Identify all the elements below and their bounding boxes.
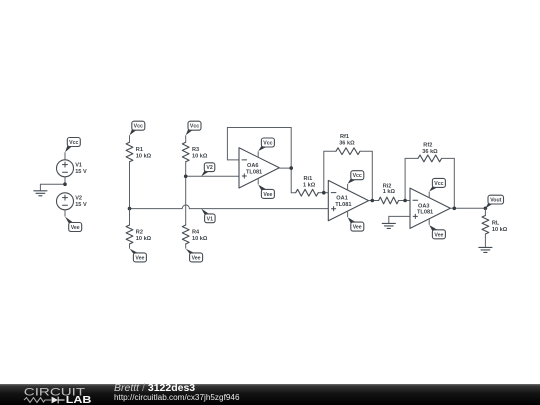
- wire: Vout node to RL: [484, 208, 486, 215]
- svg-text:15 V: 15 V: [75, 169, 87, 175]
- node: OA1 - input junction: [322, 191, 326, 195]
- svg-text:LAB: LAB: [66, 395, 92, 405]
- wire: OA1 feedback left leg: [324, 151, 336, 193]
- Vee flag (power column): [65, 217, 73, 224]
- node: R1/R2 midpoint junction: [128, 207, 132, 211]
- wire: R2 to Vee flag lead: [129, 244, 131, 249]
- wire: V1 to supply midpoint: [64, 177, 66, 184]
- svg-text:Vcc: Vcc: [263, 141, 272, 147]
- Vee flag (R2): [130, 249, 139, 254]
- svg-text:36 kΩ: 36 kΩ: [339, 141, 355, 147]
- svg-text:R2: R2: [136, 230, 143, 236]
- wire: main row to OA1 + input with hop over R3/R4 column: [130, 205, 329, 209]
- svg-text:OA6: OA6: [247, 163, 259, 169]
- svg-text:Vcc: Vcc: [434, 181, 443, 187]
- resistor R1 10 kOhm: [126, 142, 133, 162]
- Vout net flag: [485, 203, 492, 208]
- node: supply midpoint junction: [63, 182, 67, 186]
- svg-text:Vcc: Vcc: [353, 173, 362, 179]
- svg-text:Vout: Vout: [490, 198, 501, 204]
- voltage source V2 15 V: [57, 193, 74, 210]
- svg-text:OA3: OA3: [418, 203, 430, 209]
- svg-text:V1: V1: [75, 162, 82, 168]
- svg-text:R1: R1: [136, 147, 143, 153]
- CircuitLab logo resistor zigzag: [24, 398, 51, 403]
- node: OA3 output / Rf2 junction: [453, 207, 457, 211]
- svg-text:Vee: Vee: [353, 225, 362, 231]
- svg-text:Vee: Vee: [263, 192, 272, 198]
- svg-text:TL081: TL081: [246, 169, 262, 175]
- Vcc flag (OA1): [347, 184, 349, 190]
- op-amp OA1 TL081: [328, 180, 368, 220]
- resistor Ri1 1 kOhm: [296, 189, 319, 196]
- svg-text:Vcc: Vcc: [69, 140, 78, 146]
- svg-text:Ri1: Ri1: [304, 176, 313, 182]
- Vcc flag (OA6): [257, 151, 259, 157]
- resistor Rf2 36 kOhm: [418, 155, 442, 162]
- svg-text:RL: RL: [492, 221, 500, 227]
- svg-text:10 kΩ: 10 kΩ: [136, 153, 152, 159]
- wire: OA0 output down to Ri1: [279, 168, 295, 193]
- Vcc flag (R1): [130, 129, 137, 135]
- Vcc flag (R3): [186, 129, 193, 135]
- wire: R1 to node junction: [129, 162, 131, 209]
- Vcc flag (OA3): [428, 192, 430, 198]
- wire: Ri1 to OA1 - input: [318, 192, 328, 194]
- node: OA0 output junction: [289, 166, 293, 170]
- wire: OA0 feedback loop output to - input: [227, 128, 291, 169]
- op-amp OA3 TL081: [410, 188, 450, 228]
- node: OA3 - input junction: [403, 199, 407, 203]
- svg-text:Vee: Vee: [192, 255, 201, 261]
- wire: OA1 output to Ri2: [369, 200, 379, 202]
- svg-text:Rf1: Rf1: [340, 134, 349, 140]
- V2 net flag: [201, 171, 209, 177]
- ground (RL): [479, 247, 492, 252]
- svg-text:Rf2: Rf2: [423, 142, 432, 148]
- svg-text:Vee: Vee: [434, 232, 443, 238]
- svg-text:10 kΩ: 10 kΩ: [192, 153, 208, 159]
- wire: Vcc flag lead to V1: [64, 152, 66, 160]
- svg-text:V1: V1: [207, 216, 213, 222]
- resistor RL 10 kOhm: [482, 216, 489, 235]
- ground (supply midpoint): [34, 191, 47, 196]
- voltage source V1 15 V: [57, 160, 74, 177]
- node: Vout / RL junction: [484, 207, 488, 211]
- Vee flag (R4): [186, 249, 195, 254]
- Vee flag (OA3): [428, 219, 430, 225]
- wire: supply midpoint to ground: [40, 184, 65, 190]
- footer bar background: [0, 384, 540, 405]
- svg-text:http://circuitlab.com/cx37jh5z: http://circuitlab.com/cx37jh5zgf946: [114, 392, 240, 402]
- svg-text:Vee: Vee: [135, 255, 144, 261]
- resistor R3 10 kOhm: [182, 142, 189, 162]
- Vee flag (OA1): [347, 211, 349, 217]
- wire: OA3 output to Vout node: [450, 207, 485, 209]
- wire: V2 node to OA0 + input: [186, 175, 239, 177]
- svg-text:Vcc: Vcc: [134, 124, 143, 130]
- svg-text:Vcc: Vcc: [190, 124, 199, 130]
- resistor Ri2 1 kOhm: [379, 197, 399, 204]
- svg-text:OA1: OA1: [336, 196, 348, 202]
- wire: junction to R2: [129, 209, 131, 225]
- wire: OA3 + input to ground: [389, 216, 410, 223]
- svg-text:10 kΩ: 10 kΩ: [192, 236, 208, 242]
- resistor R2 10 kOhm: [126, 225, 133, 244]
- V1 net flag: [201, 209, 209, 215]
- svg-text:1 kΩ: 1 kΩ: [383, 189, 396, 195]
- wire: Ri2 to OA3 - input: [399, 200, 410, 202]
- svg-text:Vee: Vee: [71, 225, 80, 231]
- wire: V2 to Vee flag lead: [64, 210, 66, 217]
- wire: Vcc flag lead to R1: [129, 135, 131, 142]
- wire: Vcc flag lead to R3: [185, 135, 187, 142]
- wire: OA3 feedback left leg: [405, 158, 418, 200]
- svg-text:TL081: TL081: [335, 202, 351, 208]
- Vee flag (OA6): [257, 178, 259, 184]
- svg-text:V2: V2: [206, 165, 212, 171]
- svg-text:10 kΩ: 10 kΩ: [492, 227, 508, 233]
- ground (OA3 + input): [382, 223, 395, 228]
- svg-text:15 V: 15 V: [75, 202, 87, 208]
- Vcc flag (power column): [65, 146, 72, 153]
- svg-text:V2: V2: [75, 195, 82, 201]
- svg-text:R3: R3: [192, 147, 199, 153]
- op-amp OA6 TL081 (unity buffer): [239, 148, 279, 188]
- node: OA1 output junction: [371, 199, 375, 203]
- wire: R4 to Vee flag lead: [185, 244, 187, 249]
- wire: RL to ground: [484, 234, 486, 247]
- resistor R4 10 kOhm: [182, 225, 189, 244]
- svg-text:10 kΩ: 10 kΩ: [136, 236, 152, 242]
- wire: OA3 feedback right leg: [442, 158, 455, 208]
- wire: R3 through V2 node to R4: [185, 162, 187, 225]
- resistor Rf1 36 kOhm: [336, 148, 360, 155]
- CircuitLab logo diode: [52, 397, 58, 404]
- node: R3/R4 midpoint junction: [184, 175, 188, 179]
- wire: OA1 feedback right leg: [360, 151, 372, 200]
- svg-text:TL081: TL081: [417, 210, 433, 216]
- svg-text:36 kΩ: 36 kΩ: [422, 149, 438, 155]
- svg-text:R4: R4: [192, 230, 200, 236]
- svg-text:1 kΩ: 1 kΩ: [303, 183, 316, 189]
